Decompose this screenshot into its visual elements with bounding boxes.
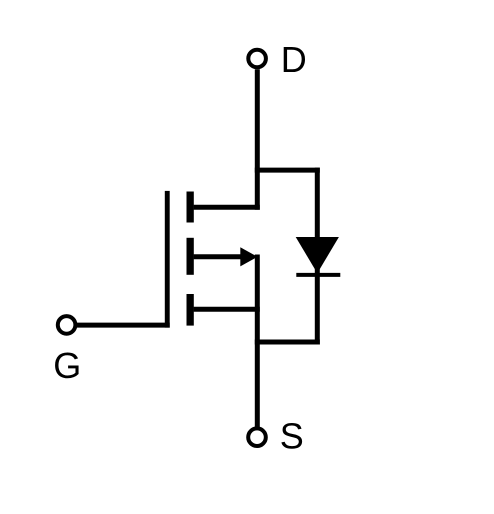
- wire gate horizontal: [76, 323, 170, 328]
- diode D1 triangle: [296, 237, 339, 273]
- wire diode cathode vertical: [315, 168, 320, 345]
- wire diode top branch: [255, 168, 320, 173]
- wire source to bottom plate: [194, 307, 260, 312]
- terminal S circle: [248, 428, 266, 446]
- svg-text:G: G: [53, 345, 81, 386]
- wire drain to top plate: [194, 205, 260, 210]
- terminal D circle: [248, 50, 266, 68]
- mosfet bottom channel plate: [187, 294, 194, 326]
- body arrow wire: [194, 254, 243, 259]
- mosfet gate plate: [165, 191, 170, 328]
- wire source vertical: [255, 255, 260, 428]
- mosfet top channel plate: [187, 192, 194, 223]
- wire drain vertical: [255, 69, 260, 210]
- diode D1 cathode bar: [296, 273, 340, 277]
- svg-text:S: S: [280, 415, 304, 456]
- mosfet middle body plate: [187, 238, 194, 275]
- body arrow head: [240, 247, 257, 266]
- terminal G circle: [58, 316, 76, 334]
- svg-text:D: D: [281, 39, 307, 80]
- wire diode bottom branch: [255, 340, 320, 345]
